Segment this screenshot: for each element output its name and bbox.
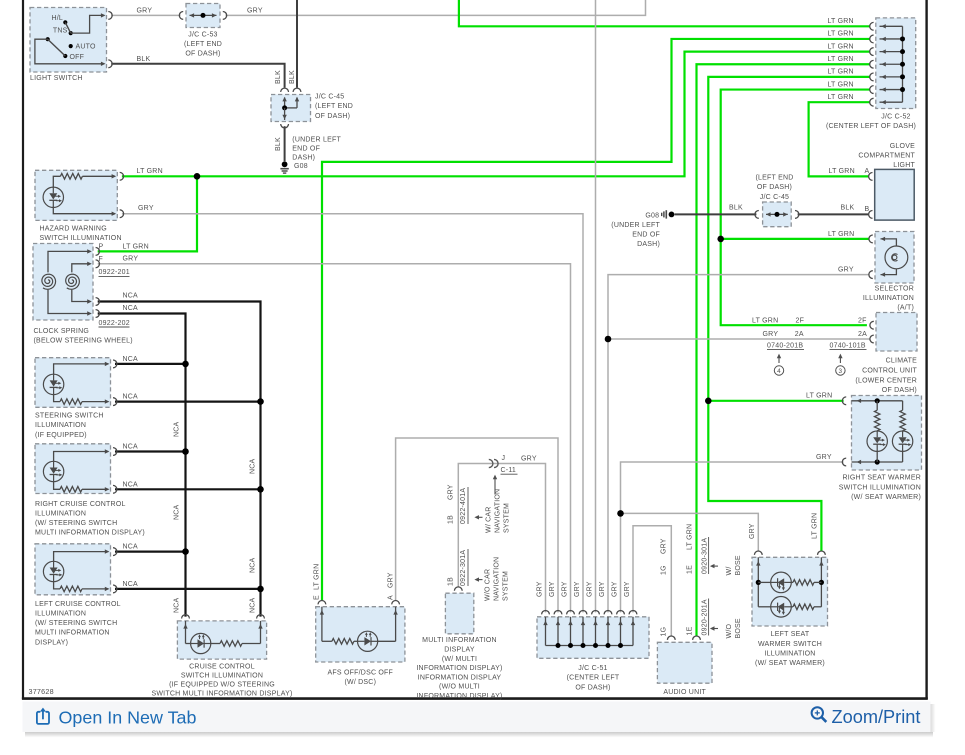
svg-text:1E: 1E xyxy=(686,565,693,574)
svg-text:CRUISE CONTROL: CRUISE CONTROL xyxy=(189,663,255,670)
svg-text:NCA: NCA xyxy=(250,458,257,474)
svg-text:(LEFT END: (LEFT END xyxy=(315,103,353,110)
svg-text:P: P xyxy=(99,244,104,251)
svg-text:J/C C-53: J/C C-53 xyxy=(188,32,217,39)
svg-text:MULTI INFORMATION DISPLAY): MULTI INFORMATION DISPLAY) xyxy=(35,530,145,537)
svg-text:Open In New Tab: Open In New Tab xyxy=(59,707,197,727)
wire NCA steering switch illumination bottom xyxy=(115,398,264,405)
label GRY light switch wire xyxy=(137,7,153,14)
wire LT GRN J/C C-52 pin1 from top edge xyxy=(459,0,870,26)
label BLK B at glove light xyxy=(865,206,870,213)
svg-text:STEERING SWITCH: STEERING SWITCH xyxy=(35,413,104,420)
svg-text:LT GRN: LT GRN xyxy=(827,56,853,63)
svg-text:OF DASH): OF DASH) xyxy=(757,184,792,191)
svg-text:(W/ DSC): (W/ DSC) xyxy=(344,679,376,686)
svg-text:2A: 2A xyxy=(858,331,867,338)
label 1B rotated lower xyxy=(448,577,455,586)
label NCA right cruise bottom xyxy=(123,481,139,488)
junction connector J/C C-52 xyxy=(870,18,916,109)
label LT GRN hazard xyxy=(137,168,163,175)
svg-text:4: 4 xyxy=(777,368,781,375)
svg-text:LIGHT: LIGHT xyxy=(893,162,915,169)
label NCA clock pin4 xyxy=(123,305,139,312)
label NCA rotated bus2 upper xyxy=(250,458,257,474)
wire NCA right cruise illumination top xyxy=(115,448,189,455)
wire LT GRN branch to selector illumination xyxy=(721,238,870,240)
wire NCA left cruise illumination top xyxy=(115,548,189,555)
svg-text:NAVIGATION: NAVIGATION xyxy=(493,557,500,601)
svg-text:DISPLAY): DISPLAY) xyxy=(35,639,68,646)
label J/C C-51 (CENTER LEFT OF DASH) xyxy=(567,665,620,691)
wire NCA left cruise illumination bottom xyxy=(115,586,264,593)
label GRY at C-11 xyxy=(521,455,537,462)
svg-text:(CENTER LEFT OF DASH): (CENTER LEFT OF DASH) xyxy=(826,123,916,130)
wire LT GRN J/C C-52 pin3 to hazard switch xyxy=(122,52,870,177)
svg-text:GRY: GRY xyxy=(536,581,543,597)
labels LT GRN at J/C C-52 pins xyxy=(827,18,853,101)
svg-text:LT GRN: LT GRN xyxy=(123,243,149,250)
labels GRY rotated at J/C C-51 pins xyxy=(536,581,631,597)
label NCA rotated bus1 middle xyxy=(174,504,181,520)
wire GRY J/C C-53 to top edge xyxy=(226,0,646,15)
label pin P xyxy=(99,244,104,251)
svg-text:INFORMATION DISPLAY): INFORMATION DISPLAY) xyxy=(416,665,502,672)
label G08 left xyxy=(294,163,308,170)
svg-text:GRY: GRY xyxy=(586,581,593,597)
label NCA right cruise top xyxy=(123,444,139,451)
label (UNDER LEFT END OF DASH) right xyxy=(611,222,660,248)
svg-text:LT GRN: LT GRN xyxy=(811,513,818,539)
svg-text:GRY: GRY xyxy=(137,7,153,14)
svg-text:BLK: BLK xyxy=(275,137,282,151)
label RIGHT SEAT WARMER SWITCH ILLUMINATION xyxy=(839,474,921,501)
svg-text:B: B xyxy=(865,206,870,213)
svg-text:NCA: NCA xyxy=(123,305,139,312)
svg-text:BOSE: BOSE xyxy=(735,618,742,638)
svg-text:1G: 1G xyxy=(660,627,667,637)
junction node seat warmer GRY xyxy=(617,510,624,517)
wire GRY J/C C-51 pin8 to audio unit pin 1G xyxy=(633,526,671,636)
svg-text:(W/ STEERING SWITCH: (W/ STEERING SWITCH xyxy=(35,620,117,627)
label AUDIO UNIT xyxy=(663,689,706,696)
svg-text:W/O: W/O xyxy=(726,624,733,639)
open in new tab icon xyxy=(37,708,49,724)
label Zoom/Print xyxy=(832,707,921,727)
svg-text:GRY: GRY xyxy=(624,581,631,597)
label LT GRN A at glove light xyxy=(829,168,870,175)
label LIGHT SWITCH xyxy=(30,75,83,82)
wire GRY selector illumination to J/C C-51 pin6 xyxy=(608,275,870,613)
label W/O BOSE rotated xyxy=(726,618,742,638)
wire GRY J/C C-51 pin7 to right seat warmer switch xyxy=(621,462,844,612)
label BLK rotated below J/C C-45 xyxy=(275,137,282,151)
svg-text:DASH): DASH) xyxy=(292,155,315,162)
svg-text:H/L: H/L xyxy=(51,15,63,22)
svg-text:2F: 2F xyxy=(796,317,805,324)
label MULTI INFORMATION DISPLAY xyxy=(416,637,502,700)
svg-text:DISPLAY: DISPLAY xyxy=(444,647,475,654)
ground G08 left xyxy=(280,161,288,173)
hazard warning switch illumination xyxy=(35,170,124,220)
label LEFT CRUISE CONTROL ILLUMINATION xyxy=(35,601,121,646)
svg-text:(W/ STEERING SWITCH: (W/ STEERING SWITCH xyxy=(35,520,117,527)
svg-text:NCA: NCA xyxy=(123,444,139,451)
wire NCA steering switch illumination top xyxy=(115,361,189,368)
svg-text:ILLUMINATION: ILLUMINATION xyxy=(35,422,86,429)
label GRY hazard xyxy=(138,205,154,212)
wire BLK J/C C-45 to ground G08 xyxy=(284,126,286,161)
junction node climate GRY xyxy=(605,336,612,343)
svg-text:GRY: GRY xyxy=(749,523,756,539)
wire GRY light switch pin1 to J/C C-53 xyxy=(111,14,180,16)
label LT GRN at selector xyxy=(828,231,854,238)
label J at C-11 xyxy=(502,455,506,462)
svg-text:WARMER SWITCH: WARMER SWITCH xyxy=(758,641,822,648)
label GRY rotated at left seat warmer xyxy=(749,523,756,539)
svg-text:LT GRN: LT GRN xyxy=(828,231,854,238)
annotation arrow circled 3 xyxy=(836,354,845,376)
svg-text:LT GRN: LT GRN xyxy=(137,168,163,175)
svg-text:NCA: NCA xyxy=(123,293,139,300)
label CLOCK SPRING (BELOW STEERING WHEEL) xyxy=(34,328,133,345)
svg-text:COMPARTMENT: COMPARTMENT xyxy=(858,153,915,160)
svg-text:SYSTEM: SYSTEM xyxy=(502,571,509,601)
wire GRY branch to left seat warmer switch xyxy=(621,513,759,551)
svg-text:CLOCK SPRING: CLOCK SPRING xyxy=(34,328,90,335)
svg-text:GRY: GRY xyxy=(138,205,154,212)
selector illumination xyxy=(869,232,914,284)
left cruise control illumination xyxy=(35,544,117,595)
svg-text:(W/O MULTI: (W/O MULTI xyxy=(439,684,480,691)
svg-text:GRY: GRY xyxy=(611,581,618,597)
svg-text:DASH): DASH) xyxy=(637,241,660,248)
svg-text:F: F xyxy=(99,256,104,263)
svg-text:NCA: NCA xyxy=(123,544,139,551)
svg-text:MULTI INFORMATION: MULTI INFORMATION xyxy=(35,630,110,637)
svg-text:SELECTOR: SELECTOR xyxy=(875,285,914,292)
svg-text:END OF: END OF xyxy=(292,146,320,153)
label HAZARD WARNING SWITCH ILLUMINATION xyxy=(40,225,122,242)
svg-text:NCA: NCA xyxy=(174,421,181,437)
svg-text:(A/T): (A/T) xyxy=(897,305,914,312)
svg-text:(LEFT END: (LEFT END xyxy=(755,175,793,182)
label NCA left cruise top xyxy=(123,544,139,551)
label NCA rotated bus2 lower xyxy=(250,597,257,613)
svg-text:BOSE: BOSE xyxy=(735,555,742,575)
svg-text:SYSTEM: SYSTEM xyxy=(503,503,510,533)
label RIGHT CRUISE CONTROL ILLUMINATION xyxy=(35,501,145,537)
svg-text:C-11: C-11 xyxy=(501,467,517,474)
svg-text:BLK: BLK xyxy=(275,70,282,84)
junction connector J/C C-53 xyxy=(179,4,226,28)
annotation arrow 0920-201A w/o Bose xyxy=(710,626,718,630)
steering switch illumination xyxy=(35,358,117,408)
svg-text:INFORMATION DISPLAY: INFORMATION DISPLAY xyxy=(418,674,502,681)
wire BLK light switch pin2 to J/C C-45 xyxy=(111,64,284,88)
label NCA steering top xyxy=(123,356,139,363)
label Open In New Tab xyxy=(59,707,197,727)
label NCA left cruise bottom xyxy=(123,581,139,588)
label LEFT SEAT WARMER SWITCH ILLUMINATION xyxy=(755,631,825,667)
label GRY rotated on C-11 wire xyxy=(448,484,455,500)
svg-text:TNS: TNS xyxy=(53,28,68,35)
svg-text:AUTO: AUTO xyxy=(76,44,97,51)
svg-text:J/C C-51: J/C C-51 xyxy=(578,665,607,672)
svg-text:BLK: BLK xyxy=(841,205,855,212)
svg-text:OFF: OFF xyxy=(70,54,85,61)
label NCA rotated bus1 upper xyxy=(174,421,181,437)
label BLK left of J/C C-45 right xyxy=(729,205,743,212)
svg-text:1B: 1B xyxy=(448,515,455,524)
label W/ BOSE rotated xyxy=(726,555,742,575)
svg-text:LT GRN: LT GRN xyxy=(827,94,853,101)
junction node selector LT GRN xyxy=(717,236,724,243)
label LT GRN right seat warmer xyxy=(806,393,832,400)
wire BLK J/C C-45 to glove compartment light pin B xyxy=(798,213,869,215)
right seat warmer switch illumination xyxy=(842,396,921,471)
svg-text:W/O CAR: W/O CAR xyxy=(484,569,491,601)
AFS OFF/DSC OFF switch xyxy=(316,601,405,662)
svg-text:377628: 377628 xyxy=(29,687,54,696)
label J/C C-45 (LEFT END OF DASH) xyxy=(315,94,353,120)
svg-text:BLK: BLK xyxy=(289,70,296,84)
wire LT GRN J/C C-52 pin7 to glove compartment light pin A xyxy=(809,102,870,176)
wire BLK from top edge to J/C C-45 xyxy=(296,0,298,88)
svg-text:GRY: GRY xyxy=(561,581,568,597)
clock spring xyxy=(33,244,100,321)
svg-text:0922-201: 0922-201 xyxy=(99,269,130,276)
glove compartment light xyxy=(869,169,915,220)
label E LT GRN rotated at AFS xyxy=(313,564,320,600)
svg-text:NCA: NCA xyxy=(123,481,139,488)
label 0740-101B xyxy=(830,342,867,349)
label AFS OFF/DSC OFF (W/ DSC) xyxy=(328,670,394,687)
svg-text:BLK: BLK xyxy=(137,56,151,63)
svg-text:LT GRN: LT GRN xyxy=(827,31,853,38)
svg-text:GRY: GRY xyxy=(838,267,854,274)
svg-text:CONTROL UNIT: CONTROL UNIT xyxy=(862,368,917,375)
svg-text:GRY: GRY xyxy=(247,7,263,14)
svg-text:INFORMATION DISPLAY): INFORMATION DISPLAY) xyxy=(416,693,502,700)
svg-text:SWITCH ILLUMINATION: SWITCH ILLUMINATION xyxy=(181,673,263,680)
multi information display xyxy=(445,587,473,634)
svg-text:CLIMATE: CLIMATE xyxy=(886,358,917,365)
wire GRY top edge to J/C C-51 pin5 xyxy=(595,0,597,612)
label J/C C-52 (CENTER LEFT OF DASH) xyxy=(826,113,916,130)
svg-text:GRY: GRY xyxy=(448,484,455,500)
label C-11 xyxy=(501,467,518,474)
svg-text:GRY: GRY xyxy=(123,256,139,263)
svg-text:3: 3 xyxy=(839,368,843,375)
ground G08 right xyxy=(662,210,675,218)
bottom toolbar xyxy=(23,702,936,738)
svg-text:GRY: GRY xyxy=(521,455,537,462)
label (UNDER LEFT END OF DASH) left xyxy=(292,136,341,161)
junction node hazard/clock spring LT GRN xyxy=(194,173,201,180)
svg-text:NCA: NCA xyxy=(250,557,257,573)
svg-text:NAVIGATION: NAVIGATION xyxy=(494,489,501,533)
svg-text:SWITCH ILLUMINATION: SWITCH ILLUMINATION xyxy=(839,484,921,491)
svg-text:G08: G08 xyxy=(294,163,308,170)
svg-text:LT GRN: LT GRN xyxy=(829,168,855,175)
label GRY clock spring xyxy=(123,256,139,263)
wire GRY branch to climate control pin 2A xyxy=(608,338,870,340)
annotation arrow 0922-301A xyxy=(474,577,482,581)
wire LT GRN branch to clock spring pin P xyxy=(98,176,197,251)
svg-text:NCA: NCA xyxy=(123,394,139,401)
svg-text:0922-301A: 0922-301A xyxy=(460,550,467,586)
svg-text:END OF: END OF xyxy=(632,232,660,239)
svg-text:LEFT SEAT: LEFT SEAT xyxy=(771,631,810,638)
right cruise control illumination xyxy=(35,444,117,494)
svg-text:OF DASH): OF DASH) xyxy=(185,51,220,58)
label 1G GRY rotated upper xyxy=(660,538,667,575)
label CRUISE CONTROL SWITCH ILLUMINATION xyxy=(151,663,292,697)
svg-text:(UNDER LEFT: (UNDER LEFT xyxy=(292,136,341,143)
svg-text:0922-401A: 0922-401A xyxy=(460,488,467,524)
svg-text:(UNDER LEFT: (UNDER LEFT xyxy=(611,222,660,229)
label 1B rotated upper xyxy=(448,515,455,524)
svg-text:2F: 2F xyxy=(858,317,867,324)
left seat warmer switch illumination xyxy=(752,551,828,626)
label 0922-401A rotated xyxy=(460,487,468,524)
svg-text:LT GRN: LT GRN xyxy=(827,18,853,25)
svg-text:GRY: GRY xyxy=(599,581,606,597)
svg-text:NCA: NCA xyxy=(250,597,257,613)
wire GRY J/C C-51 pin1 to connector C-11 to multi information display xyxy=(458,464,545,613)
svg-text:ILLUMINATION: ILLUMINATION xyxy=(863,295,914,302)
svg-text:0740-201B: 0740-201B xyxy=(767,342,803,349)
label BLK right of J/C C-45 right xyxy=(841,205,855,212)
wire BLK ground G08 to J/C C-45 right xyxy=(675,213,757,215)
label LT GRN 2F climate xyxy=(752,317,867,324)
svg-text:1G: 1G xyxy=(660,565,667,575)
label GRY at selector xyxy=(838,267,854,274)
label 1G rotated at audio pin xyxy=(660,627,667,637)
label 377628 xyxy=(29,687,54,696)
label A GRY rotated at AFS xyxy=(387,572,394,600)
svg-text:OF DASH): OF DASH) xyxy=(882,387,917,394)
svg-text:AUDIO UNIT: AUDIO UNIT xyxy=(663,689,706,696)
label GRY 2A climate xyxy=(763,331,868,338)
wire LT GRN J/C C-52 pin2 to AFS pin E xyxy=(322,39,870,600)
label G08 right xyxy=(645,213,659,220)
svg-text:(W/ SEAT WARMER): (W/ SEAT WARMER) xyxy=(851,494,921,501)
svg-text:SWITCH MULTI INFORMATION DISPL: SWITCH MULTI INFORMATION DISPLAY) xyxy=(151,690,292,697)
svg-text:LIGHT SWITCH: LIGHT SWITCH xyxy=(30,75,83,82)
svg-text:NCA: NCA xyxy=(123,581,139,588)
wire GRY clock spring pin F to J/C C-51 pin3 xyxy=(98,264,571,613)
svg-text:A: A xyxy=(387,595,394,600)
label 0922-202 xyxy=(99,320,130,327)
annotation arrow 0922-401A xyxy=(474,515,482,519)
svg-text:Zoom/Print: Zoom/Print xyxy=(832,707,921,727)
label 0920-301A rotated xyxy=(701,537,708,574)
label BLK light switch wire xyxy=(137,56,151,63)
svg-text:LT GRN: LT GRN xyxy=(752,317,778,324)
svg-text:J/C C-45: J/C C-45 xyxy=(315,94,344,101)
svg-text:W/: W/ xyxy=(726,567,733,576)
connector C-11 in-line xyxy=(489,459,498,467)
wire NCA clock spring to bus1 and cruise switch illumination xyxy=(98,314,186,617)
label J/C C-53 (LEFT END OF DASH) xyxy=(184,32,222,58)
wire GRY hazard switch to J/C C-51 pin4 xyxy=(122,214,583,613)
label NCA steering bottom xyxy=(123,394,139,401)
svg-text:NCA: NCA xyxy=(174,597,181,613)
svg-text:W/ CAR: W/ CAR xyxy=(485,506,492,533)
svg-text:GRY: GRY xyxy=(387,572,394,588)
svg-text:NCA: NCA xyxy=(174,504,181,520)
label GRY after J/C C-53 xyxy=(247,7,263,14)
junction connector J/C C-45 left xyxy=(271,88,311,128)
wire LT GRN J/C C-52 pin4 to audio unit pin 1E xyxy=(697,64,870,635)
label W/ CAR NAVIGATION SYSTEM rotated xyxy=(485,489,510,533)
svg-text:ILLUMINATION: ILLUMINATION xyxy=(35,611,86,618)
label pin F xyxy=(99,256,104,263)
label 0922-301A rotated xyxy=(460,549,468,586)
junction node seat warmer LT GRN xyxy=(705,398,712,405)
svg-text:LT GRN: LT GRN xyxy=(313,564,320,590)
svg-text:LT GRN: LT GRN xyxy=(827,81,853,88)
wire NCA right cruise illumination bottom xyxy=(115,486,264,493)
label SELECTOR ILLUMINATION (A/T) xyxy=(863,285,914,311)
svg-text:1B: 1B xyxy=(448,577,455,586)
label 0922-201 xyxy=(99,269,130,276)
annotation arrow C-11 w/ car nav xyxy=(493,475,497,495)
svg-text:HAZARD WARNING: HAZARD WARNING xyxy=(40,225,107,232)
svg-text:NCA: NCA xyxy=(123,356,139,363)
svg-text:(CENTER LEFT: (CENTER LEFT xyxy=(567,675,620,682)
svg-text:0920-301A: 0920-301A xyxy=(701,538,708,574)
wire GRY AFS pin A to J/C C-51 pin2 xyxy=(396,438,558,612)
svg-text:(LOWER CENTER: (LOWER CENTER xyxy=(855,377,917,384)
label (LEFT END OF DASH) J/C C-45 xyxy=(755,175,793,201)
svg-text:LT GRN: LT GRN xyxy=(686,524,693,550)
svg-text:OF DASH): OF DASH) xyxy=(315,113,350,120)
zoom print icon xyxy=(812,707,827,722)
svg-text:J/C C-45: J/C C-45 xyxy=(760,194,789,201)
svg-text:(W/ SEAT WARMER): (W/ SEAT WARMER) xyxy=(755,660,825,667)
label GRY right seat warmer xyxy=(816,454,832,461)
label NCA clock pin3 xyxy=(123,293,139,300)
svg-text:(IF EQUIPPED): (IF EQUIPPED) xyxy=(35,432,87,439)
svg-text:0920-201A: 0920-201A xyxy=(701,599,708,635)
svg-text:OF DASH): OF DASH) xyxy=(575,684,610,691)
label 1E rotated at audio pin xyxy=(686,626,693,635)
svg-text:LT GRN: LT GRN xyxy=(827,69,853,76)
svg-text:AFS OFF/DSC OFF: AFS OFF/DSC OFF xyxy=(328,670,394,677)
svg-text:LT GRN: LT GRN xyxy=(806,393,832,400)
label 0740-201B xyxy=(767,342,804,349)
svg-text:(IF EQUIPPED W/O STEERING: (IF EQUIPPED W/O STEERING xyxy=(169,681,275,688)
svg-text:GRY: GRY xyxy=(549,581,556,597)
svg-text:MULTI INFORMATION: MULTI INFORMATION xyxy=(422,637,497,644)
svg-text:(W/ MULTI: (W/ MULTI xyxy=(442,656,477,663)
annotation arrow circled 4 xyxy=(774,354,783,376)
svg-text:ILLUMINATION: ILLUMINATION xyxy=(35,511,86,518)
svg-text:0740-101B: 0740-101B xyxy=(830,342,866,349)
svg-text:E: E xyxy=(313,595,320,600)
svg-text:BLK: BLK xyxy=(729,205,743,212)
wire LT GRN J/C C-52 pin5 to left seat warmer switch xyxy=(708,77,869,551)
svg-text:SWITCH ILLUMINATION: SWITCH ILLUMINATION xyxy=(40,235,122,242)
cruise control switch illumination xyxy=(177,615,266,660)
climate control unit xyxy=(870,313,917,352)
junction connector J/C C-45 right xyxy=(755,202,799,227)
svg-text:G08: G08 xyxy=(645,213,659,220)
svg-text:LEFT CRUISE CONTROL: LEFT CRUISE CONTROL xyxy=(35,601,121,608)
wire LT GRN J/C C-52 pin6 to climate control pin 2F xyxy=(721,90,870,326)
